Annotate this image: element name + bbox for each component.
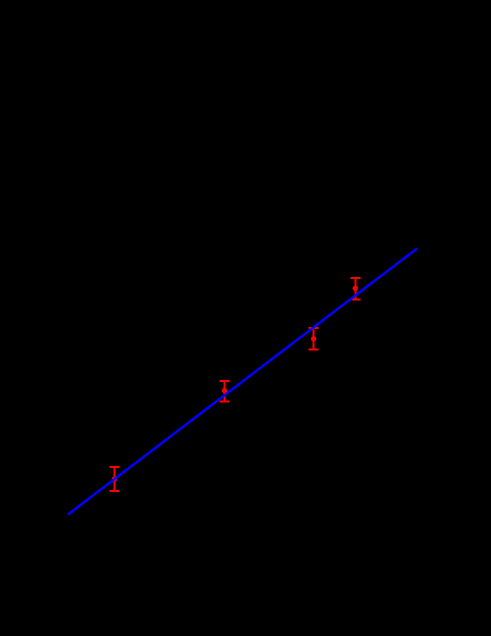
fit line: [68, 249, 417, 515]
data point 3 marker: [311, 336, 316, 341]
data point 2 error bar: [219, 381, 229, 402]
data point 3 error bar: [309, 328, 319, 350]
data point 2 marker: [222, 388, 227, 393]
data point 4 error bar: [350, 278, 360, 299]
data point 4 marker: [353, 286, 358, 291]
data point 1 marker: [112, 477, 117, 482]
data point 1 error bar: [109, 467, 119, 491]
